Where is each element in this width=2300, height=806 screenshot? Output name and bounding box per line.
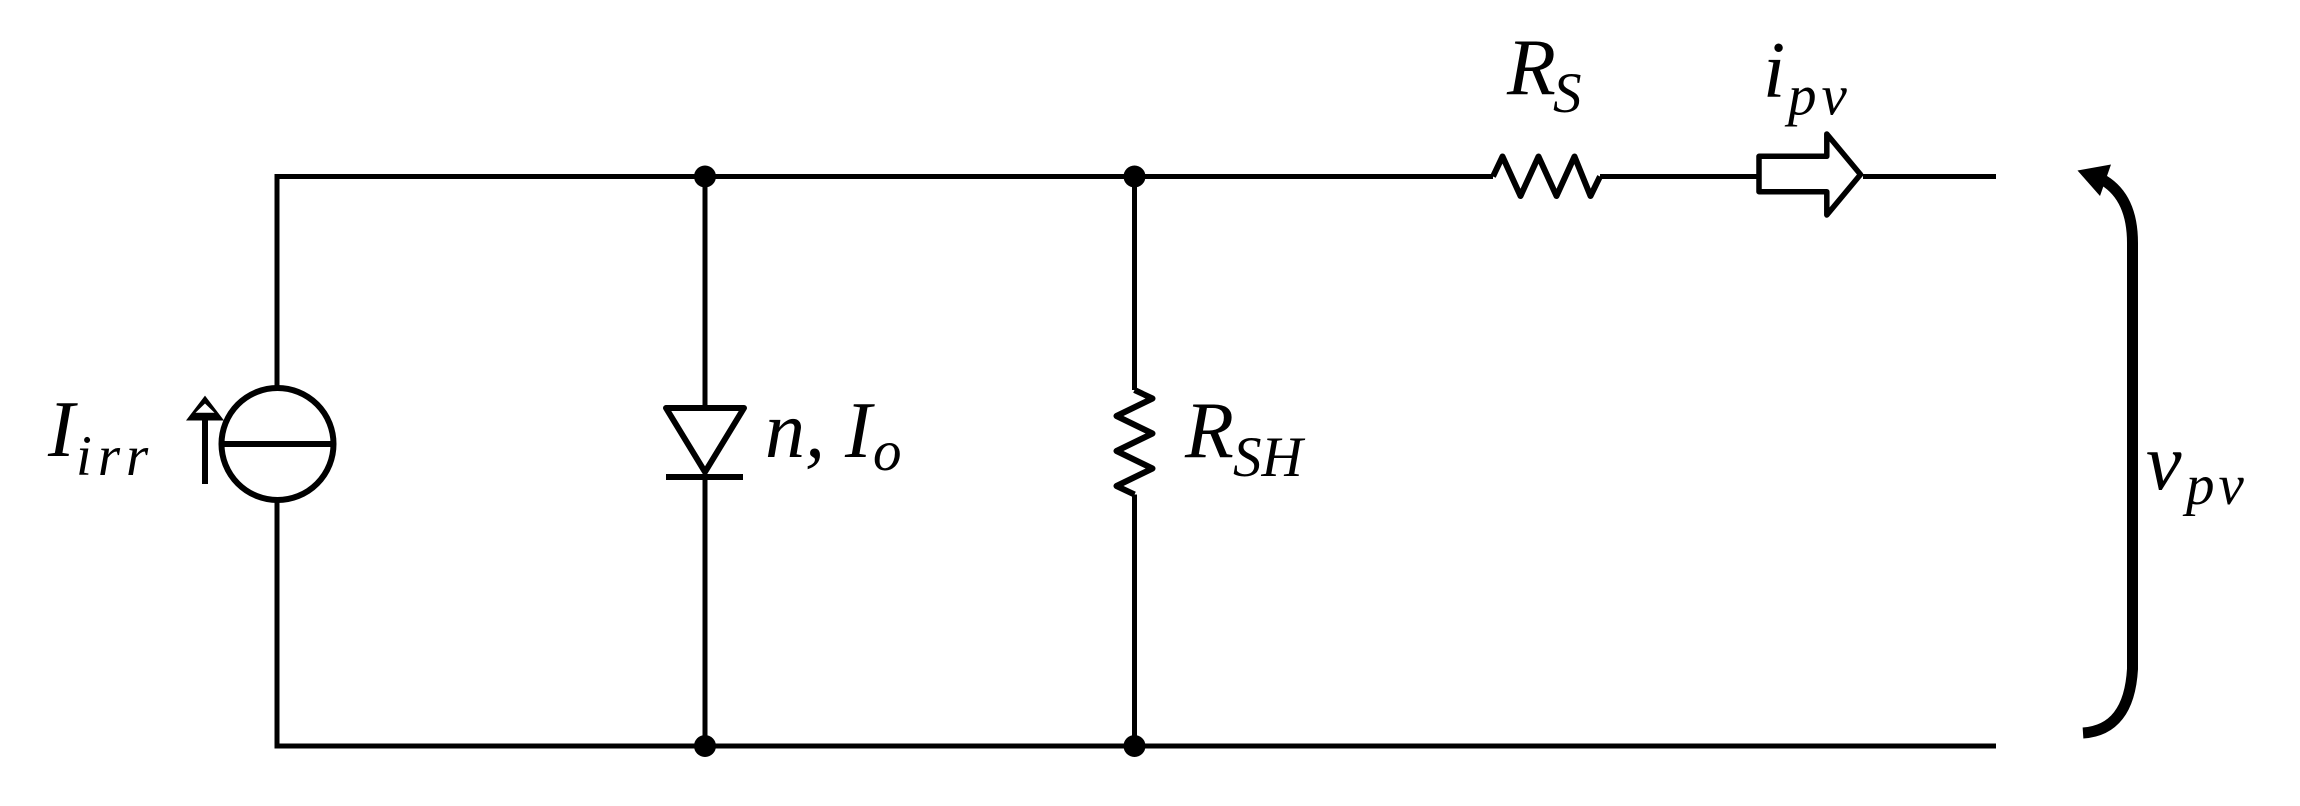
- label n, I_o: [765, 387, 902, 483]
- voltage bracket v_pv curve: [2083, 181, 2133, 734]
- resistor R_SH zigzag: [1117, 390, 1153, 495]
- svg-text:I: I: [47, 386, 78, 474]
- svg-text:irr: irr: [76, 425, 154, 488]
- diode D (hollow triangle): [666, 408, 744, 472]
- svg-text:i: i: [1763, 27, 1785, 115]
- svg-text:o: o: [873, 420, 902, 483]
- node dot: bottom Rsh junction: [1124, 735, 1146, 757]
- label I_irr: [47, 386, 154, 488]
- wire: top rail between Rs and ipv arrow: [1600, 174, 1757, 179]
- diode cathode bar: [666, 474, 743, 480]
- wire: top rail right of ipv arrow: [1863, 174, 1996, 179]
- current source direction arrow head (hollow triangle): [186, 396, 224, 421]
- svg-text:pv: pv: [1784, 65, 1852, 128]
- resistor R_S zigzag: [1493, 157, 1600, 197]
- svg-text:R: R: [1184, 387, 1234, 475]
- wire: Rsh branch lower segment: [1132, 495, 1137, 747]
- svg-text:R: R: [1506, 24, 1556, 112]
- current source diameter line: [222, 441, 334, 447]
- wire: diode branch upper segment: [703, 177, 708, 409]
- node dot: top Rsh junction: [1124, 166, 1146, 188]
- svg-text:pv: pv: [2182, 454, 2248, 517]
- svg-text:n, I: n, I: [765, 387, 875, 475]
- voltage bracket v_pv arrowhead: [2078, 165, 2112, 197]
- svg-text:S: S: [1553, 62, 1582, 125]
- wire: Rsh branch upper segment: [1132, 177, 1137, 391]
- node dot: top diode junction: [694, 166, 716, 188]
- current arrow i_pv (hollow block arrow): [1759, 134, 1861, 215]
- wire: bottom rail: [275, 744, 1997, 749]
- label R_SH: [1184, 387, 1306, 489]
- current source I_irr circle: [222, 388, 334, 500]
- label v_pv: [2146, 419, 2248, 517]
- svg-text:SH: SH: [1233, 426, 1306, 489]
- node dot: bottom diode junction: [694, 735, 716, 757]
- svg-text:v: v: [2146, 419, 2182, 507]
- wire: left branch upper segment (top rail corner down to current source): [275, 174, 280, 389]
- label R_S: [1506, 24, 1582, 125]
- wire: diode branch lower segment: [703, 477, 708, 746]
- wire: top rail from left corner to Rs: [275, 174, 1494, 179]
- label i_pv: [1763, 27, 1852, 128]
- wire: left branch lower segment: [275, 500, 280, 749]
- current source direction arrow shaft: [202, 414, 208, 484]
